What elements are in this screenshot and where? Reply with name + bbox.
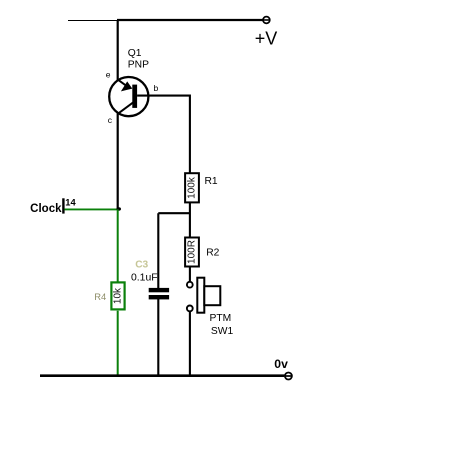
svg-text:R4: R4 [94,291,106,302]
wire capacitor to 0v rail [157,299,159,376]
svg-text:b: b [154,83,159,93]
wire R1 to R2 [189,203,191,237]
wire base to R1 [137,96,190,173]
switch SW1 [187,278,220,313]
wire 0v rail [40,374,284,377]
wire to capacitor branch [158,212,190,214]
green wire R4 to 0v rail [117,311,119,376]
wire R2 to switch [189,267,191,281]
resistor R1 [185,173,199,202]
svg-text:0.1uF: 0.1uF [131,273,158,284]
wire +V rail thin segment [68,20,119,22]
wire +V rail [117,19,263,21]
terminal 0v [285,373,292,380]
wire to capacitor top [157,213,159,288]
terminal +V [263,17,270,24]
svg-text:e: e [106,70,111,80]
resistor R4 [111,282,124,309]
svg-text:14: 14 [65,198,76,208]
clock pin tick [62,198,64,213]
svg-text:Clock: Clock [30,203,62,215]
svg-text:c: c [108,115,113,125]
wire collector to junction [117,114,119,210]
resistor R2 [185,238,199,267]
svg-text:100R: 100R [187,240,198,264]
wire emitter from +V rail [117,20,119,81]
svg-text:100k: 100k [187,176,198,199]
wire switch to 0v rail [189,312,191,376]
svg-text:PNP: PNP [128,59,149,70]
transistor Q1 [109,77,148,116]
svg-text:+V: +V [255,29,278,49]
green wire clock to junction [64,208,118,210]
svg-text:SW1: SW1 [211,326,234,337]
svg-text:0v: 0v [274,357,288,371]
capacitor C3 [149,288,169,300]
svg-text:R2: R2 [206,247,219,258]
svg-text:C3: C3 [135,259,148,270]
green wire junction to R4 [117,209,119,282]
svg-text:PTM: PTM [210,313,232,324]
svg-text:R1: R1 [205,176,218,187]
junction dot [116,207,121,210]
svg-text:10k: 10k [113,287,124,304]
svg-text:Q1: Q1 [128,48,142,59]
